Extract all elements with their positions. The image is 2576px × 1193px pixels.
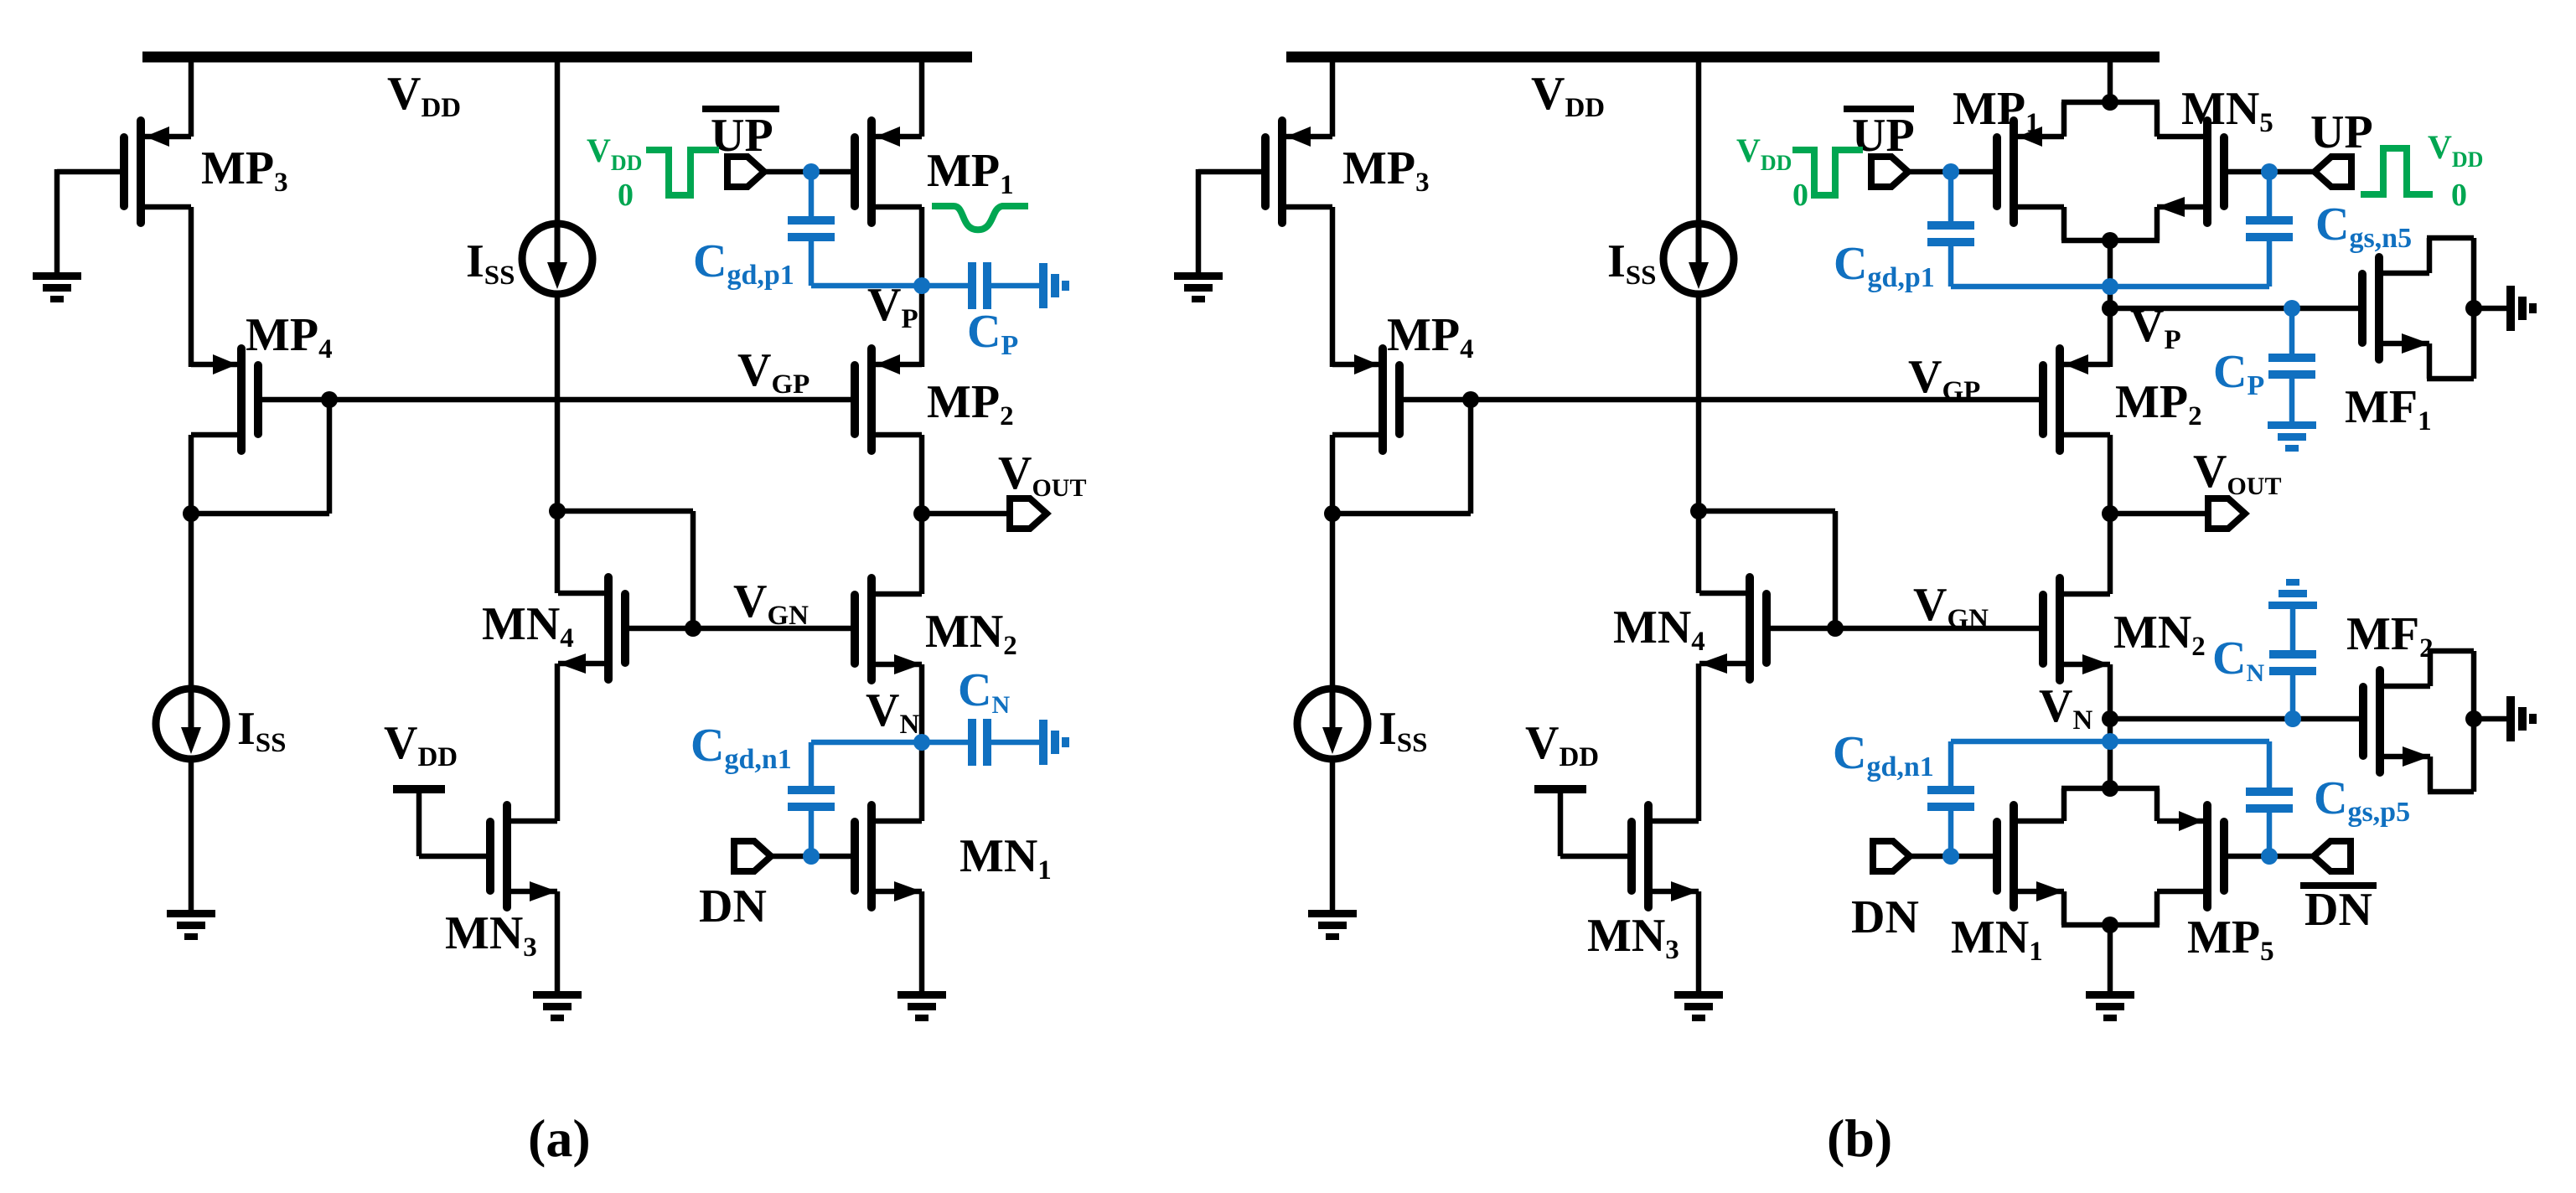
ground — [533, 991, 582, 999]
current source ISS mid (a) — [522, 224, 592, 294]
svg-text:(b): (b) — [1827, 1108, 1892, 1168]
wire — [1330, 762, 1336, 910]
wire — [1699, 509, 1835, 514]
wire — [2474, 306, 2506, 312]
ground — [1174, 272, 1223, 280]
ground small blue (b) — [2268, 421, 2316, 429]
wire — [189, 514, 194, 686]
ground small (a) — [1039, 263, 1047, 308]
node VOUT (a) — [913, 505, 930, 522]
ground small (b) — [2506, 696, 2515, 741]
transistor MN2 (a) — [867, 574, 876, 684]
node — [2465, 300, 2482, 317]
node — [2102, 278, 2118, 295]
port UPbar (a) — [727, 157, 764, 187]
port UP (b) — [2315, 157, 2351, 187]
svg-text:(a): (a) — [528, 1108, 591, 1168]
wire — [919, 52, 925, 137]
capacitor Cgsp5 (b) — [2267, 741, 2273, 788]
VDD tap (a) — [393, 785, 445, 793]
node — [2102, 917, 2118, 933]
transistor MP4 (a) — [237, 344, 246, 455]
ground — [2086, 991, 2134, 999]
node — [1462, 391, 1479, 408]
wire — [1696, 52, 1702, 222]
node VOUT (b) — [2102, 505, 2118, 522]
port VOUT (b) — [2208, 498, 2245, 529]
svg-text:DN: DN — [699, 881, 767, 932]
wire — [1198, 169, 1261, 175]
blue crossing node (b) — [2102, 733, 2118, 750]
node — [1324, 505, 1341, 522]
port UPbar (b) — [1871, 157, 1908, 187]
wire — [555, 52, 561, 222]
transistor MN2 (b) — [2056, 574, 2064, 684]
wire — [189, 52, 194, 137]
port DNbar (b) — [2314, 841, 2351, 871]
wire — [191, 511, 329, 517]
svg-text:0: 0 — [618, 178, 634, 213]
wire MN5 gate — [2228, 169, 2315, 175]
port VOUT (a) — [1010, 498, 1047, 529]
node — [2102, 94, 2118, 111]
wire — [1332, 511, 1471, 517]
node gate MP1 (b) — [1942, 163, 1959, 180]
wire — [919, 664, 925, 821]
wire — [57, 169, 120, 175]
green waveform pulse (b-left) — [1792, 150, 1863, 195]
transistor MN4 (a) — [604, 573, 613, 684]
transistor MP1 (b) — [2010, 116, 2018, 227]
TG wires lower (b) — [2061, 788, 2067, 821]
wire — [1330, 207, 1336, 367]
wire VGP (a) — [262, 397, 851, 403]
node — [2102, 232, 2118, 249]
wire VGN (b) — [1771, 626, 2039, 632]
capacitor Cgdp1 (b) — [1948, 172, 1954, 221]
wire MP5 gate — [2228, 854, 2314, 860]
transistor MN5 (b) — [2203, 116, 2211, 227]
transistor MN4 (b) — [1746, 573, 1754, 684]
ground small (b) — [2506, 286, 2515, 331]
capacitor CN (a) — [922, 740, 968, 746]
wire — [922, 511, 1010, 517]
label UPbar (b) — [1844, 106, 1914, 112]
TG wires (b) — [2061, 102, 2067, 137]
node VP (a) — [913, 277, 930, 294]
wire — [1696, 664, 1702, 821]
transistor MP2 (b) — [2056, 344, 2064, 455]
capacitor Cgdp1 (a) — [809, 172, 815, 216]
wire — [2108, 435, 2113, 594]
node VGN (b) — [1827, 620, 1844, 637]
wire — [919, 435, 925, 594]
node VP (b) — [2102, 300, 2118, 317]
transistor MF1 (b) — [2375, 253, 2383, 364]
transistor MP3 (b) — [1278, 116, 1286, 227]
MF1 short loop (b) — [2427, 238, 2433, 273]
green waveform pulse (a) — [646, 150, 719, 195]
transistor MP4 (b) — [1379, 344, 1387, 455]
wire — [764, 169, 851, 175]
wire VGN (a) — [629, 626, 851, 632]
transistor MP1 (a) — [867, 116, 876, 227]
ground small (a) — [1039, 720, 1047, 765]
wire — [1696, 891, 1702, 991]
node CN branch (b) — [2284, 710, 2301, 727]
green glitch curve (a) — [932, 206, 1028, 230]
node VGN (a) — [685, 620, 701, 637]
capacitor CN (b) — [2290, 675, 2296, 719]
wire — [555, 891, 561, 991]
wire — [189, 435, 194, 516]
wire — [555, 297, 561, 593]
node gate MN1 (a) — [803, 848, 820, 865]
ground — [1674, 991, 1723, 999]
wire — [555, 664, 561, 821]
node gate MN5 (b) — [2261, 163, 2278, 180]
transistor MN1 (a) — [867, 801, 876, 912]
current source ISS left (b) — [1297, 689, 1368, 759]
port DN (a) — [734, 841, 771, 871]
capacitor CP (a) — [968, 262, 976, 309]
wire — [1696, 297, 1702, 593]
wire — [2108, 664, 2113, 788]
wire — [2110, 511, 2208, 517]
svg-text:DN: DN — [2304, 884, 2372, 936]
wire VN (b) — [2110, 716, 2359, 722]
wire VP (b) — [2110, 306, 2359, 312]
power rail VDD (a) — [142, 52, 972, 63]
wire — [919, 207, 925, 367]
VDD tap (b) — [1534, 785, 1586, 793]
node — [183, 505, 199, 522]
ground — [33, 272, 81, 280]
wire — [1330, 435, 1336, 516]
node — [321, 391, 338, 408]
label DNbar (b) — [2300, 882, 2377, 889]
wire — [189, 762, 194, 910]
current source ISS mid (b) — [1663, 224, 1734, 294]
transistor MF2 (b) — [2376, 666, 2384, 777]
wire — [2108, 240, 2113, 367]
port DN (b) — [1873, 841, 1910, 871]
wire — [2108, 52, 2113, 102]
current source ISS left (a) — [156, 689, 226, 759]
transistor MP2 (a) — [867, 344, 876, 455]
transistor MN3 (a) — [503, 801, 511, 912]
wire — [1330, 52, 1336, 137]
power rail VDD (b) — [1286, 52, 2160, 63]
svg-text:0: 0 — [1792, 178, 1808, 213]
node gate MN1dn (b) — [1942, 848, 1959, 865]
wire — [771, 854, 851, 860]
capacitor Cgdn1 (b) — [1948, 811, 1954, 856]
wire — [189, 207, 194, 367]
node VN (a) — [913, 734, 930, 751]
wire — [557, 509, 693, 514]
wire — [1910, 854, 1993, 860]
wire — [1908, 169, 1993, 175]
MF2 short loop (b) — [2428, 651, 2434, 686]
node gate MP5 (b) — [2261, 848, 2278, 865]
node CP branch (b) — [2284, 300, 2300, 317]
transistor MN3 (b) — [1644, 801, 1653, 912]
transistor MP3 (a) — [137, 116, 145, 227]
wire — [2474, 716, 2506, 722]
ground — [897, 991, 946, 999]
node — [2102, 780, 2118, 797]
capacitor CP (b) — [2289, 308, 2295, 354]
wire — [919, 891, 925, 991]
green waveform pulse (b-right) — [2361, 148, 2433, 194]
ground — [1308, 910, 1357, 917]
capacitor Cgsn5 (b) — [2267, 172, 2273, 216]
wire — [2108, 925, 2113, 991]
wire — [811, 283, 968, 289]
svg-text:DN: DN — [1851, 891, 1919, 943]
ground small blue up (b) — [2268, 602, 2317, 609]
node — [549, 503, 566, 519]
ground — [167, 910, 215, 917]
label UPbar (a) — [702, 106, 779, 112]
node — [2465, 710, 2482, 727]
transistor MN1 (b) — [2010, 801, 2018, 912]
wire — [1330, 514, 1336, 686]
node — [1690, 503, 1707, 519]
capacitor Cgdn1 (a) — [811, 740, 922, 746]
node gate MP1 (a) — [803, 163, 820, 180]
svg-text:0: 0 — [2451, 178, 2467, 213]
svg-text:UP: UP — [2310, 106, 2373, 158]
node VN (b) — [2102, 710, 2118, 727]
transistor MP5 (b) — [2203, 801, 2211, 912]
wire VGP (b) — [1404, 397, 2039, 403]
